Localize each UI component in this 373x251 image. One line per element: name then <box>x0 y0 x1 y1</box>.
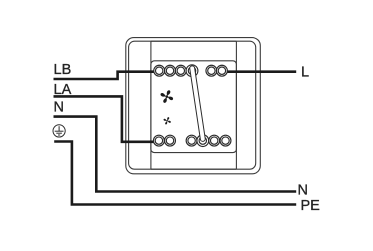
svg-text:PE: PE <box>301 198 321 214</box>
svg-text:L: L <box>301 65 309 81</box>
svg-text:LB: LB <box>54 62 72 78</box>
svg-text:N: N <box>298 182 308 198</box>
svg-text:N: N <box>54 100 64 116</box>
svg-text:LA: LA <box>54 82 72 98</box>
